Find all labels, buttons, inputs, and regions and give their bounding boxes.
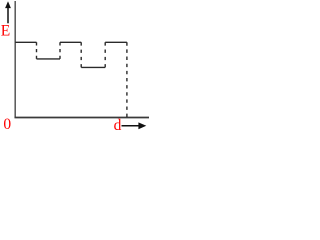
y-axis (E axis)	[14, 1, 16, 118]
svg-text:d: d	[114, 117, 122, 134]
high segment 3	[105, 41, 127, 43]
rise 1 (dashed)	[59, 42, 61, 59]
high segment 2	[60, 41, 81, 43]
up arrow (E direction)	[5, 1, 11, 23]
final drop to axis (dashed)	[126, 42, 128, 117]
high segment 1	[15, 41, 36, 43]
svg-text:E: E	[1, 22, 10, 39]
drop 2 (dashed)	[80, 42, 82, 67]
low segment 1	[37, 58, 61, 60]
stepped field plot	[15, 42, 127, 117]
right arrow (d direction)	[122, 122, 147, 129]
x-axis (d axis)	[15, 117, 150, 119]
low segment 2	[81, 66, 105, 68]
rise 2 (dashed)	[104, 42, 106, 67]
svg-text:0: 0	[3, 116, 11, 133]
drop 1 (dashed)	[36, 42, 38, 59]
